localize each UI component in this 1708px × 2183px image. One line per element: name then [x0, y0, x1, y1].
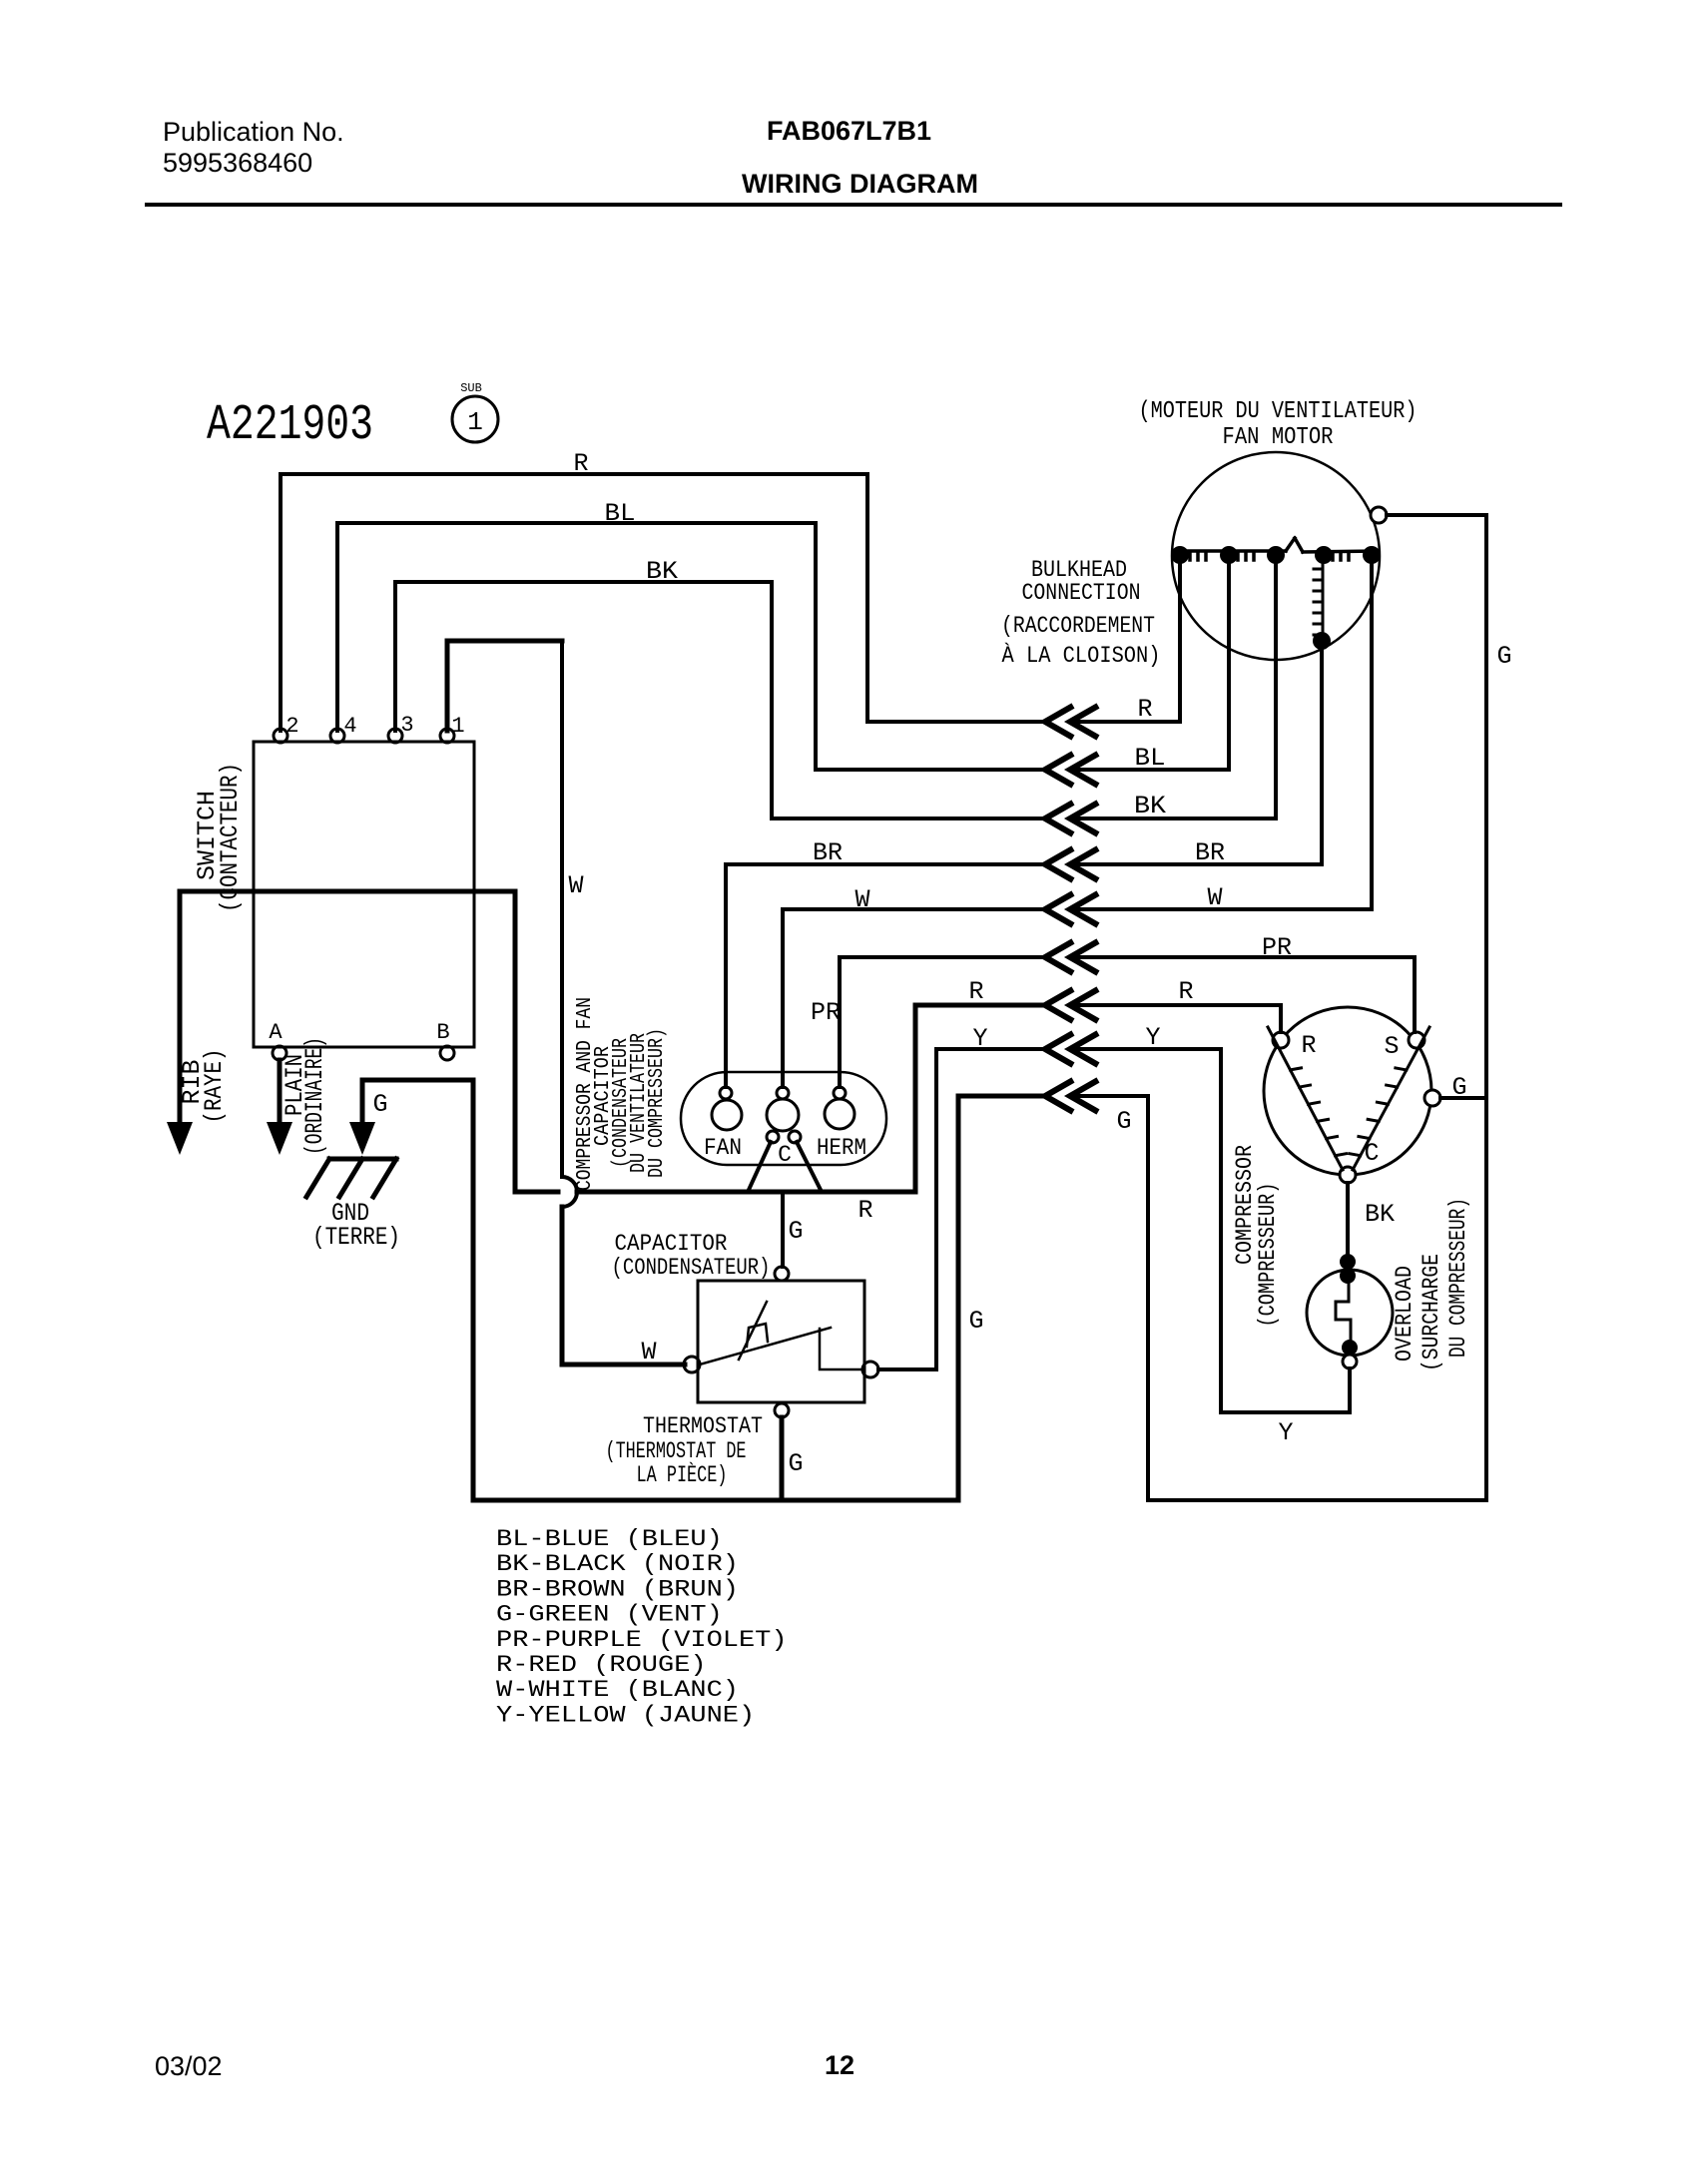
switch terminal 1	[440, 714, 465, 743]
wire label BR (right)	[1195, 838, 1225, 867]
svg-text:Y: Y	[1145, 1023, 1160, 1052]
svg-text:R: R	[573, 449, 588, 478]
wire label G (ground branch)	[372, 1090, 387, 1119]
svg-text:R: R	[1301, 1031, 1316, 1060]
svg-text:À LA CLOISON): À LA CLOISON)	[1002, 642, 1161, 669]
thermostat W terminal	[684, 1357, 700, 1372]
svg-text:BR: BR	[1195, 838, 1225, 867]
svg-text:S: S	[1384, 1032, 1399, 1061]
wire PR from HERM terminal to bulkhead	[840, 957, 1043, 1087]
fan motor M1 circle	[1172, 452, 1380, 660]
switch S1 (contacteur) box	[254, 742, 474, 1047]
wire label PR (left)	[811, 998, 841, 1027]
svg-text:BR: BR	[813, 838, 843, 867]
svg-text:C: C	[778, 1142, 792, 1168]
label (MOTEUR DU VENTILATEUR) FAN MOTOR	[1139, 398, 1418, 451]
wire label W (left of W row)	[854, 885, 869, 914]
svg-text:A: A	[269, 1020, 283, 1045]
wire label R (right)	[1137, 695, 1152, 724]
fan motor stator winding	[1173, 538, 1378, 560]
wire label BK	[646, 557, 678, 586]
svg-text:1: 1	[467, 407, 483, 437]
wire G compressor G terminal to right riser	[1440, 1096, 1486, 1100]
wire W from switch terminal 1 down to thermostat (with hop)	[447, 641, 685, 1364]
bulkhead connector BL row 2	[1045, 754, 1098, 786]
svg-text:G: G	[788, 1449, 803, 1478]
wire label G (right riser)	[1496, 642, 1511, 671]
wire PLAIN from switch terminal A	[278, 1060, 283, 1122]
svg-text:R-RED (ROUGE): R-RED (ROUGE)	[496, 1652, 707, 1678]
thermostat top terminal	[775, 1267, 789, 1281]
wire label G (above thermostat)	[788, 1217, 803, 1246]
fan motor winding terminal dots	[1171, 546, 1381, 564]
label COMPRESSOR AND FAN CAPACITOR (CONDENSATEUR DU VENTILATEUR DU COMPRESSEUR)	[574, 997, 669, 1191]
svg-text:W: W	[641, 1338, 656, 1366]
arrow PLAIN (ORDINAIRE)	[267, 1122, 292, 1155]
bulkhead connector W row 5	[1045, 893, 1098, 925]
label GND (TERRE)	[312, 1199, 400, 1252]
wire label BL	[605, 499, 636, 528]
bulkhead connector BK row 3	[1045, 803, 1098, 834]
svg-text:BL: BL	[605, 499, 636, 528]
svg-text:2: 2	[285, 714, 298, 739]
svg-text:R: R	[857, 1196, 872, 1225]
wire label BL (right)	[1135, 744, 1166, 773]
wire color legend	[496, 1526, 788, 1728]
wire BL from switch terminal 4 to bulkhead	[337, 523, 1043, 770]
bulkhead connector G row 9	[1045, 1080, 1098, 1112]
wire G from thermostat bottom terminal to bottom run	[775, 1403, 789, 1500]
svg-text:Y: Y	[972, 1024, 987, 1053]
svg-text:R: R	[968, 977, 983, 1006]
svg-text:R: R	[1178, 977, 1193, 1006]
ground symbol GND (TERRE)	[306, 1159, 396, 1197]
wire label W (at thermostat)	[641, 1338, 656, 1366]
switch terminal 2	[274, 714, 299, 743]
bulkhead connector Y row 8	[1045, 1033, 1098, 1065]
wire R fan motor to bulkhead	[1072, 562, 1180, 722]
wire R from switch terminal 2 to bulkhead	[281, 474, 1043, 731]
arrow RIB (RAYE)	[167, 1122, 193, 1155]
wire label PR (right)	[1262, 933, 1292, 962]
wire Y bulkhead left to thermostat right terminal	[878, 1049, 1043, 1369]
compressor G terminal	[1424, 1073, 1467, 1106]
svg-text:PR-PURPLE (VIOLET): PR-PURPLE (VIOLET)	[496, 1627, 788, 1653]
wire label Y (right of Y row)	[1145, 1023, 1160, 1052]
header publication number	[163, 117, 344, 178]
svg-text:FAN MOTOR: FAN MOTOR	[1223, 424, 1334, 451]
svg-text:Y: Y	[1278, 1418, 1293, 1447]
svg-text:FAN: FAN	[704, 1135, 742, 1161]
svg-text:CONNECTION: CONNECTION	[1022, 580, 1141, 606]
svg-text:4: 4	[343, 714, 356, 739]
svg-text:(ORDINAIRE): (ORDINAIRE)	[300, 1037, 329, 1155]
bulkhead connector BR row 4	[1045, 848, 1098, 880]
wire label G (left riser)	[968, 1307, 983, 1336]
capacitor C terminal	[767, 1087, 801, 1168]
footer page number 12	[825, 2050, 854, 2080]
svg-text:W: W	[854, 885, 869, 914]
wire label BK (compressor)	[1365, 1200, 1395, 1229]
label COMPRESSOR (COMPRESSEUR)	[1232, 1145, 1281, 1328]
overload internal element	[1336, 1283, 1351, 1341]
svg-text:(RACCORDEMENT: (RACCORDEMENT	[1001, 613, 1155, 639]
bulkhead connector R row 1	[1045, 706, 1098, 738]
wire label W (right)	[1207, 883, 1222, 912]
fan motor shell terminal (white)	[1371, 507, 1387, 523]
capacitor FAN terminal	[704, 1087, 742, 1161]
svg-text:CAPACITOR: CAPACITOR	[615, 1231, 728, 1257]
svg-text:03/02: 03/02	[155, 2051, 223, 2081]
sub revision circle 1	[452, 381, 498, 442]
compressor start winding S-C	[1350, 1027, 1429, 1170]
svg-text:FAB067L7B1: FAB067L7B1	[767, 116, 931, 146]
header rule	[147, 203, 1560, 207]
svg-text:PR: PR	[1262, 933, 1292, 962]
wire G to ground	[362, 1080, 473, 1122]
wire G: junction down, along bottom, up to G bulkhead row (left side)	[473, 1080, 1043, 1500]
compressor C terminal	[1340, 1139, 1380, 1183]
svg-text:DU COMPRESSEUR): DU COMPRESSEUR)	[1445, 1198, 1471, 1358]
svg-text:SUB: SUB	[460, 381, 482, 395]
wire R bulkhead to compressor R	[1072, 1005, 1281, 1032]
label BULKHEAD CONNECTION (RACCORDEMENT A LA CLOISON)	[1001, 557, 1161, 669]
svg-text:Publication No.: Publication No.	[163, 117, 344, 147]
wire BL fan motor to bulkhead	[1072, 562, 1229, 770]
svg-text:G: G	[788, 1217, 803, 1246]
svg-text:1: 1	[451, 714, 464, 739]
wire Y overload to bulkhead	[1072, 1049, 1350, 1412]
wire label R	[573, 449, 588, 478]
svg-text:3: 3	[400, 713, 413, 738]
capacitor C bottom slant connections to heavy run	[749, 1142, 821, 1190]
svg-text:LA PIÈCE): LA PIÈCE)	[637, 1461, 728, 1488]
label RIB (RAYE)	[178, 1049, 229, 1124]
capacitor C1: compressor and fan capacitor body	[681, 1072, 886, 1165]
overload protector circle	[1307, 1270, 1393, 1356]
svg-text:G: G	[1116, 1107, 1131, 1136]
svg-text:W: W	[1207, 883, 1222, 912]
overload bottom dot and terminal	[1342, 1340, 1358, 1368]
svg-text:G: G	[372, 1090, 387, 1119]
svg-text:PR: PR	[811, 998, 841, 1027]
thermostat internal switch	[700, 1302, 862, 1369]
compressor M2 circle	[1264, 1007, 1431, 1175]
wire label G (below thermostat)	[788, 1449, 803, 1478]
wire BR from FAN terminal to bulkhead	[726, 864, 1043, 1087]
svg-text:OVERLOAD: OVERLOAD	[1392, 1266, 1418, 1362]
wire label BR (left)	[813, 838, 843, 867]
capacitor HERM terminal	[817, 1087, 866, 1161]
footer date 03/02	[155, 2051, 223, 2081]
label THERMOSTAT (THERMOSTAT DE LA PIECE)	[606, 1413, 764, 1488]
svg-text:(MOTEUR DU VENTILATEUR): (MOTEUR DU VENTILATEUR)	[1139, 398, 1418, 425]
fan motor auxiliary winding (vertical coil)	[1313, 555, 1331, 650]
svg-text:THERMOSTAT: THERMOSTAT	[643, 1413, 763, 1439]
wire G from heavy run down to thermostat top terminal	[781, 1192, 785, 1267]
label OVERLOAD (SURCHARGE DU COMPRESSEUR)	[1392, 1198, 1471, 1371]
wire BK from switch terminal 3 to bulkhead	[395, 582, 1043, 819]
label PLAIN (ORDINAIRE)	[281, 1037, 329, 1155]
thermostat right terminal	[862, 1362, 878, 1377]
wire label BK (right)	[1134, 792, 1166, 820]
wire label R (left of R row)	[968, 977, 983, 1006]
svg-text:BK-BLACK (NOIR): BK-BLACK (NOIR)	[496, 1551, 739, 1577]
drawing number A221903	[207, 397, 373, 454]
wire G from fan motor shell to right G riser	[1387, 513, 1486, 517]
wire G right riser: bulkhead G row right to bottom, up to fan motor	[1072, 515, 1486, 1500]
svg-text:G-GREEN (VENT): G-GREEN (VENT)	[496, 1602, 723, 1628]
svg-text:HERM: HERM	[817, 1135, 866, 1161]
svg-text:BL: BL	[1135, 744, 1166, 773]
svg-text:(RAYE): (RAYE)	[200, 1049, 229, 1124]
bulkhead connector R row 7	[1045, 989, 1098, 1021]
label CAPACITOR (CONDENSATEUR)	[612, 1231, 771, 1281]
arrow to ground	[349, 1122, 375, 1155]
wire label R (heavy run riser)	[857, 1196, 872, 1225]
wire label W (vertical run)	[568, 871, 583, 900]
svg-text:BL-BLUE (BLEU): BL-BLUE (BLEU)	[496, 1526, 723, 1552]
wire BK fan motor to bulkhead	[1072, 562, 1276, 819]
switch terminal B	[436, 1020, 454, 1060]
compressor R terminal	[1273, 1031, 1317, 1060]
svg-text:BK: BK	[646, 557, 678, 586]
svg-text:5995368460: 5995368460	[163, 148, 312, 178]
switch terminal 4	[330, 714, 357, 743]
svg-text:BK: BK	[1134, 792, 1166, 820]
wire label Y (near overload)	[1278, 1418, 1293, 1447]
wire RIB feed: heavy run from arrow up across switch, down and right to R bulkhead	[180, 891, 1043, 1192]
svg-text:12: 12	[825, 2050, 854, 2080]
header model number FAB067L7B1	[767, 116, 931, 146]
switch label SWITCH (CONTACTEUR)	[193, 763, 245, 912]
svg-text:DU COMPRESSEUR): DU COMPRESSEUR)	[646, 1028, 669, 1178]
svg-text:BR-BROWN (BRUN): BR-BROWN (BRUN)	[496, 1576, 739, 1602]
switch terminal A	[269, 1020, 286, 1060]
overload top junction dots	[1340, 1254, 1356, 1284]
svg-text:(THERMOSTAT DE: (THERMOSTAT DE	[606, 1438, 747, 1464]
svg-text:A221903: A221903	[207, 397, 373, 454]
svg-text:BK: BK	[1365, 1200, 1395, 1229]
svg-text:Y-YELLOW (JAUNE): Y-YELLOW (JAUNE)	[496, 1702, 755, 1728]
svg-text:(SURCHARGE: (SURCHARGE	[1419, 1254, 1444, 1371]
bulkhead connector PR row 6	[1045, 941, 1098, 973]
header title WIRING DIAGRAM	[742, 169, 978, 199]
svg-text:G: G	[1496, 642, 1511, 671]
compressor S terminal	[1384, 1032, 1424, 1061]
svg-text:B: B	[436, 1020, 449, 1045]
svg-text:R: R	[1137, 695, 1152, 724]
svg-text:W: W	[568, 871, 583, 900]
svg-text:(TERRE): (TERRE)	[312, 1223, 400, 1252]
wire label R (right row 7)	[1178, 977, 1193, 1006]
svg-text:(CONDENSATEUR): (CONDENSATEUR)	[612, 1255, 771, 1281]
wire BR fan aux winding to bulkhead	[1072, 648, 1322, 864]
compressor run winding R-C	[1268, 1027, 1347, 1170]
switch terminal 3	[388, 713, 414, 743]
svg-text:(COMPRESSEUR): (COMPRESSEUR)	[1255, 1183, 1281, 1328]
wire label Y (left of Y row)	[972, 1024, 987, 1053]
svg-text:G: G	[968, 1307, 983, 1336]
wire W fan motor to bulkhead	[1072, 562, 1372, 909]
svg-text:WIRING DIAGRAM: WIRING DIAGRAM	[742, 169, 978, 199]
wire label G (below G row)	[1116, 1107, 1131, 1136]
wire PR bulkhead to compressor S	[1072, 957, 1415, 1032]
wire W from C terminal to bulkhead	[783, 909, 1043, 1087]
svg-text:W-WHITE (BLANC): W-WHITE (BLANC)	[496, 1677, 739, 1703]
wire BK compressor C to overload	[1346, 1183, 1350, 1256]
thermostat box	[698, 1281, 864, 1402]
